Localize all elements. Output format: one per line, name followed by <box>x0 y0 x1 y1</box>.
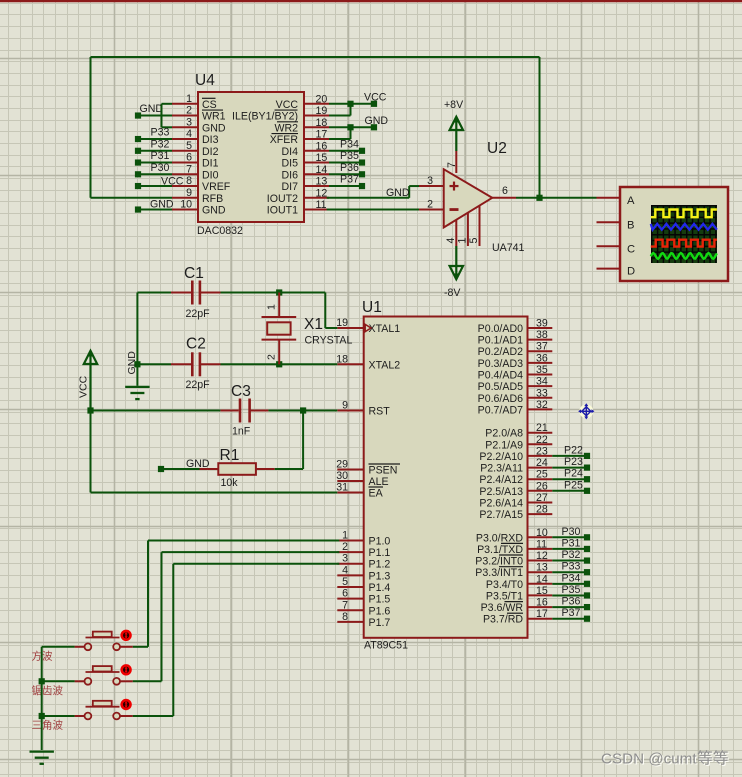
svg-text:DAC0832: DAC0832 <box>197 225 243 237</box>
svg-text:P0.4/AD4: P0.4/AD4 <box>478 370 523 382</box>
push button SW2 <box>75 665 133 684</box>
terminal P22 on U1 pin 23 <box>552 444 590 459</box>
svg-text:P0.6/AD6: P0.6/AD6 <box>478 393 523 405</box>
svg-text:ILE(BY1/BY2): ILE(BY1/BY2) <box>232 111 298 123</box>
push button SW3 <box>75 700 133 719</box>
svg-text:P3.6/WR: P3.6/WR <box>481 602 524 614</box>
svg-text:7: 7 <box>186 163 192 175</box>
svg-text:23: 23 <box>536 445 548 457</box>
power terminal -8V arrow <box>444 246 463 299</box>
svg-text:CS: CS <box>202 99 217 111</box>
svg-text:DI4: DI4 <box>282 146 299 158</box>
terminal P36 on U1 pin 16 <box>552 596 590 611</box>
U1 pin 2 P1.1 <box>337 541 390 559</box>
oscilloscope channel C pin <box>597 243 636 255</box>
wire ground bus to SW1 <box>42 646 75 648</box>
junction U2 output node <box>536 195 542 201</box>
svg-text:C2: C2 <box>186 336 206 353</box>
svg-text:P0.5/AD5: P0.5/AD5 <box>478 381 523 393</box>
junction crystal pin2 node <box>276 361 282 367</box>
svg-text:2: 2 <box>266 354 278 360</box>
svg-text:22pF: 22pF <box>186 379 211 391</box>
svg-text:P3.0/RXD: P3.0/RXD <box>476 532 523 544</box>
svg-text:C: C <box>627 243 635 255</box>
svg-text:A: A <box>627 195 635 207</box>
svg-text:DI3: DI3 <box>202 134 219 146</box>
svg-text:VREF: VREF <box>202 181 231 193</box>
wire GND rail to C2 left <box>134 361 171 367</box>
svg-text:13: 13 <box>536 562 548 574</box>
svg-text:9: 9 <box>186 187 192 199</box>
U4 pin 5 DI2 <box>172 140 219 158</box>
U1 pin 4 P1.3 <box>337 564 390 582</box>
U4 pin 15 DI5 <box>282 152 330 170</box>
sheet top border line <box>0 0 742 2</box>
svg-text:UA741: UA741 <box>492 242 524 254</box>
svg-text:-8V: -8V <box>444 287 461 299</box>
svg-text:P1.3: P1.3 <box>369 570 391 582</box>
svg-text:6: 6 <box>502 185 508 197</box>
svg-text:GND: GND <box>365 115 389 127</box>
junction ground bus / SW2 <box>39 678 45 684</box>
wire C2 right to crystal bottom / XTAL2 <box>221 363 338 365</box>
svg-text:14: 14 <box>536 573 548 585</box>
svg-text:P0.3/AD3: P0.3/AD3 <box>478 358 523 370</box>
svg-text:15: 15 <box>536 585 548 597</box>
terminal P33 on U1 pin 13 <box>552 561 590 576</box>
wire RST node down to R1 <box>302 411 304 470</box>
svg-text:P1.5: P1.5 <box>369 594 391 606</box>
U4 pin 10 GND <box>172 199 226 217</box>
svg-text:P36: P36 <box>562 596 581 608</box>
svg-text:X1: X1 <box>304 316 323 333</box>
svg-text:P22: P22 <box>564 444 583 456</box>
svg-text:EA: EA <box>369 488 384 500</box>
waveform channel A (yellow square wave) <box>651 210 717 218</box>
svg-text:35: 35 <box>536 364 548 376</box>
wire R1 right to RST node <box>275 468 303 470</box>
svg-text:37: 37 <box>536 341 548 353</box>
U1 pin 6 P1.5 <box>337 588 390 606</box>
wire ground bus to SW3 <box>42 715 75 717</box>
U4 pin 11 IOUT1 <box>267 199 329 217</box>
svg-text:27: 27 <box>536 492 548 504</box>
svg-text:38: 38 <box>536 329 548 341</box>
svg-text:WR1: WR1 <box>202 111 226 123</box>
U1 pin 36 P0.3/AD3 <box>478 352 553 370</box>
svg-text:10: 10 <box>536 527 548 539</box>
svg-text:17: 17 <box>536 608 548 620</box>
svg-text:P2.4/A12: P2.4/A12 <box>479 474 523 486</box>
svg-text:P1.6: P1.6 <box>369 605 391 617</box>
op-amp U2 UA741 body <box>444 169 493 227</box>
svg-text:32: 32 <box>536 399 548 411</box>
svg-text:P2.1/A9: P2.1/A9 <box>485 439 523 451</box>
U1 pin 11 P3.1/TXD <box>477 538 552 556</box>
svg-text:DI6: DI6 <box>282 169 299 181</box>
U1 pin 5 P1.4 <box>337 576 390 594</box>
U2 pin 4 (V-) <box>445 220 457 246</box>
oscilloscope channel B pin <box>597 219 635 231</box>
svg-text:4: 4 <box>342 564 348 576</box>
svg-text:R1: R1 <box>220 447 240 464</box>
power terminal VCC (U4 pins 20,19) <box>364 91 387 107</box>
svg-text:P34: P34 <box>562 572 581 584</box>
svg-text:PSEN: PSEN <box>369 465 398 477</box>
svg-text:P1.2: P1.2 <box>369 559 391 571</box>
waveform channel D (green sine wave) <box>651 253 717 259</box>
terminal P34 to U4 pin 16 <box>329 138 365 154</box>
power terminal +8V arrow <box>444 99 464 151</box>
terminal P30 on U1 pin 10 <box>552 526 590 541</box>
IC U4 DAC0832 body <box>198 92 304 222</box>
U1 pin 37 P0.2/AD2 <box>478 341 553 359</box>
waveform channel C (red square wave) <box>651 240 717 247</box>
svg-text:XFER: XFER <box>270 134 299 146</box>
svg-text:锯齿波: 锯齿波 <box>32 684 64 697</box>
U1 pin 27 P2.6/A14 <box>479 492 552 510</box>
svg-text:1nF: 1nF <box>232 426 251 438</box>
svg-text:CRYSTAL: CRYSTAL <box>305 335 353 347</box>
svg-text:P30: P30 <box>562 526 581 538</box>
U1 pin 23 P2.2/A10 <box>479 445 552 463</box>
svg-text:P2.0/A8: P2.0/A8 <box>485 428 523 440</box>
svg-text:VCC: VCC <box>78 375 90 398</box>
terminal P31 on U1 pin 11 <box>552 537 590 552</box>
svg-text:P2.3/A11: P2.3/A11 <box>480 463 523 475</box>
svg-text:AT89C51: AT89C51 <box>364 640 408 652</box>
svg-text:P2.2/A10: P2.2/A10 <box>479 451 523 463</box>
wire SW3 to U1 <box>133 564 339 716</box>
svg-text:DI7: DI7 <box>282 181 299 193</box>
svg-text:RST: RST <box>369 406 391 418</box>
U4 pin 16 DI4 <box>282 140 330 158</box>
svg-text:1: 1 <box>342 530 348 542</box>
U4 pin 13 DI7 <box>282 176 330 194</box>
U1 pin 38 P0.1/AD1 <box>478 329 553 347</box>
svg-text:31: 31 <box>336 482 348 494</box>
U4 pin 12 IOUT2 <box>267 187 329 205</box>
svg-text:P33: P33 <box>562 561 581 573</box>
wire VCC to U4 pins 20,19 <box>329 101 374 116</box>
svg-text:C3: C3 <box>231 383 251 400</box>
svg-text:U4: U4 <box>195 72 215 89</box>
svg-text:8: 8 <box>342 611 348 623</box>
power terminal GND (U4 pins 1-3) <box>135 103 163 119</box>
svg-text:10: 10 <box>180 199 192 211</box>
U1 pin 15 P3.5/T1 <box>486 585 552 603</box>
junction ground bus / SW3 <box>39 713 45 719</box>
svg-text:P33: P33 <box>151 127 170 139</box>
terminal P37 to U4 pin 13 <box>329 174 365 190</box>
svg-text:P1.4: P1.4 <box>369 582 391 594</box>
U1 pin 8 P1.7 <box>337 611 390 629</box>
svg-text:U1: U1 <box>362 299 382 316</box>
U1 pin 39 P0.0/AD0 <box>478 318 553 336</box>
svg-text:10k: 10k <box>221 477 239 489</box>
svg-text:19: 19 <box>336 317 348 329</box>
wire U2 output to oscilloscope channel A <box>540 197 597 199</box>
U1 pin 34 P0.5/AD5 <box>478 376 553 394</box>
U4 pin 9 RFB <box>172 187 223 205</box>
power terminal GND to U4 pin 10 <box>135 199 174 213</box>
oscilloscope screen <box>651 205 717 263</box>
U1 pin 10 P3.0/RXD <box>476 527 552 545</box>
svg-text:15: 15 <box>316 152 328 164</box>
svg-text:2: 2 <box>342 541 348 553</box>
oscilloscope channel D pin <box>597 266 636 278</box>
svg-text:P1.1: P1.1 <box>369 547 391 559</box>
terminal P32 to U4 pin 5 <box>135 138 172 154</box>
U1 pin 32 P0.7/AD7 <box>478 399 553 417</box>
U4 pin 14 DI6 <box>282 164 330 182</box>
svg-text:P3.1/TXD: P3.1/TXD <box>477 544 523 556</box>
ground symbol (buttons) <box>30 752 54 764</box>
capacitor C2 <box>171 336 221 392</box>
svg-text:P1.0: P1.0 <box>369 536 391 548</box>
svg-text:5: 5 <box>186 140 192 152</box>
U1 pin 25 P2.4/A12 <box>479 469 552 487</box>
svg-text:B: B <box>627 219 634 231</box>
op-amp U2 minus input marker <box>450 208 459 211</box>
svg-text:P31: P31 <box>151 150 170 162</box>
svg-text:三角波: 三角波 <box>32 719 64 732</box>
svg-text:4: 4 <box>445 238 457 244</box>
terminal P34 on U1 pin 14 <box>552 572 590 587</box>
U1 pin 21 P2.0/A8 <box>485 422 552 440</box>
svg-text:18: 18 <box>316 117 328 129</box>
svg-text:P30: P30 <box>151 162 170 174</box>
svg-text:P0.1/AD1: P0.1/AD1 <box>478 335 523 347</box>
svg-text:DI1: DI1 <box>202 158 219 170</box>
svg-text:P3.7/RD: P3.7/RD <box>483 614 523 626</box>
terminal P37 on U1 pin 17 <box>552 607 590 622</box>
terminal P33 to U4 pin 4 <box>135 127 172 143</box>
svg-text:3: 3 <box>427 175 433 187</box>
capacitor C1 <box>171 265 221 320</box>
IC U1 AT89C51 body <box>364 317 528 638</box>
svg-text:P32: P32 <box>562 549 581 561</box>
feedback wire U2 output to U4 pin 9 (RFB) <box>91 57 540 198</box>
waveform channel B (blue triangle wave) <box>651 224 717 230</box>
svg-text:XTAL1: XTAL1 <box>369 323 401 335</box>
svg-text:24: 24 <box>536 457 548 469</box>
svg-text:P35: P35 <box>562 584 581 596</box>
svg-text:VCC: VCC <box>364 91 387 103</box>
svg-text:P36: P36 <box>340 162 359 174</box>
svg-text:+8V: +8V <box>444 99 464 111</box>
svg-text:CSDN @cumt: CSDN @cumt <box>601 751 697 768</box>
svg-text:P3.5/T1: P3.5/T1 <box>486 590 523 602</box>
svg-text:P37: P37 <box>340 174 359 186</box>
terminal P30 to U4 pin 7 <box>135 162 172 178</box>
wire C1 left to GND rail <box>137 293 171 365</box>
svg-text:3: 3 <box>342 553 348 565</box>
svg-text:P31: P31 <box>562 537 581 549</box>
U1 pin 13 P3.3/INT1 <box>475 562 552 580</box>
svg-text:30: 30 <box>336 470 348 482</box>
power terminal VCC to U4 pin 8 (VREF) <box>135 176 184 190</box>
svg-text:U2: U2 <box>487 140 507 157</box>
svg-text:DI0: DI0 <box>202 169 219 181</box>
junction VCC / RST row <box>87 407 93 413</box>
svg-text:28: 28 <box>536 504 548 516</box>
power terminal VCC arrow (left) <box>78 350 98 411</box>
svg-text:39: 39 <box>536 318 548 330</box>
svg-text:36: 36 <box>536 352 548 364</box>
U4 pin 20 VCC <box>276 93 329 111</box>
U4 pin 17 XFER <box>270 129 329 147</box>
U1 pin 26 P2.5/A13 <box>479 480 552 498</box>
svg-text:P3.4/T0: P3.4/T0 <box>486 579 523 591</box>
U2 pin 5 <box>468 206 480 246</box>
svg-text:P2.6/A14: P2.6/A14 <box>479 498 523 510</box>
svg-text:P35: P35 <box>340 150 359 162</box>
terminal P36 to U4 pin 14 <box>329 162 365 178</box>
svg-text:P25: P25 <box>564 479 583 491</box>
U1 pin 24 P2.3/A11 <box>480 457 552 475</box>
svg-text:11: 11 <box>316 199 327 211</box>
svg-text:P23: P23 <box>564 456 583 468</box>
svg-text:P37: P37 <box>562 607 581 619</box>
wire SW2 to U1 <box>133 552 339 681</box>
svg-text:1: 1 <box>186 93 192 105</box>
terminal P32 on U1 pin 12 <box>552 549 590 564</box>
U1 pin 12 P3.2/INT0 <box>475 550 552 568</box>
svg-text:P24: P24 <box>564 468 583 480</box>
svg-text:6: 6 <box>186 152 192 164</box>
svg-text:P0.2/AD2: P0.2/AD2 <box>478 346 523 358</box>
crystal X1 <box>262 293 353 365</box>
svg-text:20: 20 <box>316 93 328 105</box>
U1 pin 35 P0.4/AD4 <box>478 364 553 382</box>
svg-text:P34: P34 <box>340 138 359 150</box>
svg-text:14: 14 <box>316 164 328 176</box>
terminal P25 on U1 pin 26 <box>552 479 590 494</box>
wire VCC rail down to EA row <box>91 411 338 493</box>
svg-text:RFB: RFB <box>202 193 223 205</box>
svg-text:25: 25 <box>536 469 548 481</box>
svg-text:16: 16 <box>316 140 328 152</box>
resistor R1 10k <box>200 447 275 489</box>
terminal P31 to U4 pin 6 <box>135 150 172 166</box>
svg-text:22pF: 22pF <box>186 308 211 320</box>
svg-text:P2.5/A13: P2.5/A13 <box>479 486 523 498</box>
svg-text:GND: GND <box>386 187 410 199</box>
svg-text:34: 34 <box>536 376 548 388</box>
svg-text:P1.7: P1.7 <box>369 617 391 629</box>
U1 pin 7 P1.6 <box>337 599 390 617</box>
U1 pin 19 XTAL1 <box>336 317 400 335</box>
U1 pin 17 P3.7/RD <box>483 608 552 626</box>
svg-text:P2.7/A15: P2.7/A15 <box>479 509 523 521</box>
wire GND to U4 pins 1,2,3 <box>138 104 172 128</box>
blue origin marker <box>578 403 594 419</box>
wire C3 to RST pin <box>268 410 337 412</box>
U1 pin 33 P0.6/AD6 <box>478 387 553 405</box>
svg-text:6: 6 <box>342 588 348 600</box>
wire RST row left segment <box>91 410 221 412</box>
svg-text:GND: GND <box>126 351 138 375</box>
svg-text:D: D <box>627 266 635 278</box>
U1 pin 3 P1.2 <box>337 553 390 571</box>
svg-text:ALE: ALE <box>369 476 389 488</box>
U2 pin 7 (V+) <box>446 151 458 173</box>
U1 pin 16 P3.6/WR <box>481 597 553 615</box>
U1 pin 18 XTAL2 <box>336 353 400 371</box>
svg-text:2: 2 <box>186 105 192 117</box>
svg-text:16: 16 <box>536 597 548 609</box>
wire U4 pin 12 to GND terminal / U2 pin 3 <box>327 186 419 198</box>
ground bus left <box>41 647 43 750</box>
svg-text:XTAL2: XTAL2 <box>369 359 401 371</box>
svg-text:18: 18 <box>336 353 348 365</box>
U1 pin 1 P1.0 <box>337 530 390 548</box>
svg-text:22: 22 <box>536 434 548 446</box>
U1 pin 9 RST <box>337 400 390 418</box>
wire ground bus to SW2 <box>42 680 75 682</box>
junction crystal pin1 node <box>276 289 282 295</box>
svg-text:IOUT1: IOUT1 <box>267 205 298 217</box>
U4 pin 6 DI1 <box>172 152 219 170</box>
push button SW1 <box>75 631 133 650</box>
svg-text:11: 11 <box>536 538 547 550</box>
svg-text:12: 12 <box>536 550 548 562</box>
svg-text:GND: GND <box>140 103 164 115</box>
power terminal GND (U4 pins 18,17) <box>365 115 389 131</box>
U1 pin 30 ALE <box>336 470 388 488</box>
terminal GND at R1 <box>158 458 210 472</box>
oscilloscope channel A pin <box>597 195 636 207</box>
terminal P23 on U1 pin 24 <box>552 456 590 471</box>
svg-text:12: 12 <box>316 187 328 199</box>
oscilloscope body <box>620 187 728 281</box>
U4 pin 18 WR2 <box>274 117 329 135</box>
U4 pin 8 VREF <box>172 175 231 193</box>
svg-text:P32: P32 <box>151 138 170 150</box>
wire C1 right to crystal top / XTAL1 <box>221 293 338 329</box>
svg-text:7: 7 <box>342 599 348 611</box>
svg-text:13: 13 <box>316 176 328 188</box>
svg-text:2: 2 <box>427 199 433 211</box>
svg-text:1: 1 <box>457 238 469 244</box>
U4 pin 19 ILE(BY1/BY2) <box>232 105 329 123</box>
U4 pin 3 GND <box>172 116 226 134</box>
svg-text:5: 5 <box>468 238 480 244</box>
capacitor C3 <box>220 383 268 438</box>
U4 pin 1 CS <box>172 93 217 111</box>
svg-text:C1: C1 <box>184 265 204 282</box>
svg-text:WR2: WR2 <box>274 122 298 134</box>
svg-text:33: 33 <box>536 387 548 399</box>
svg-text:VCC: VCC <box>276 99 299 111</box>
svg-text:17: 17 <box>316 129 328 141</box>
ground symbol (crystal) <box>125 351 149 399</box>
junction RST / R1 node <box>300 407 306 413</box>
wire SW1 to U1 <box>133 541 339 647</box>
svg-text:P3.3/INT1: P3.3/INT1 <box>475 567 523 579</box>
svg-text:29: 29 <box>336 459 348 471</box>
U2 pin 1 <box>457 213 469 246</box>
svg-text:8: 8 <box>186 175 192 187</box>
svg-text:9: 9 <box>342 400 348 412</box>
U1 pin 22 P2.1/A9 <box>485 434 552 452</box>
svg-text:P3.2/INT0: P3.2/INT0 <box>475 556 523 568</box>
wire U4 pin 11 to U2 pin 2 <box>327 209 419 211</box>
svg-text:26: 26 <box>536 480 548 492</box>
svg-text:4: 4 <box>186 128 192 140</box>
svg-text:3: 3 <box>186 116 192 128</box>
